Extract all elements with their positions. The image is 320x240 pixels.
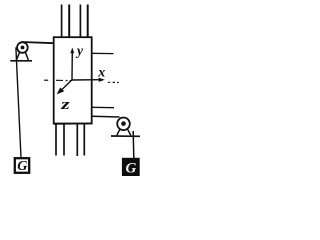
svg-text:y: y <box>75 43 84 58</box>
top pipe line 3 <box>79 5 81 38</box>
svg-text:G: G <box>126 160 137 176</box>
right stub lower <box>92 106 114 108</box>
svg-text:x: x <box>97 65 105 80</box>
y-axis <box>71 52 73 80</box>
svg-text:G: G <box>17 159 27 174</box>
right pulley base bracket <box>111 135 140 137</box>
svg-text:z: z <box>60 96 70 113</box>
right weight G box <box>122 158 139 175</box>
rope from left pulley to vessel <box>22 42 55 43</box>
x-axis <box>72 79 100 81</box>
bottom pipe line 1 <box>55 124 57 156</box>
left pulley hub <box>21 46 25 50</box>
z-axis <box>61 80 72 91</box>
vessel bottom edge reinforcement <box>54 122 92 125</box>
right stub upper <box>92 52 114 54</box>
left weight G box <box>15 158 29 173</box>
top pipe line 4 <box>87 5 89 38</box>
right pulley hub <box>121 121 126 126</box>
left pulley stand leg b <box>25 52 28 60</box>
vessel box <box>54 37 92 123</box>
left pulley base bracket <box>10 60 32 62</box>
rope from vessel to right pulley <box>92 115 120 118</box>
rope from left pulley down to weight <box>16 47 21 157</box>
right pulley wheel P2 <box>117 118 130 131</box>
rope from right pulley down to weight <box>132 131 135 158</box>
bottom pipe line 4 <box>83 124 85 156</box>
right pulley stand leg a <box>117 129 120 135</box>
bottom pipe line 2 <box>63 124 65 156</box>
bottom pipe line 3 <box>76 124 78 157</box>
left pulley stand leg a <box>16 52 19 60</box>
top pipe line 2 <box>68 5 70 38</box>
dash-dot centerline <box>44 80 119 82</box>
right pulley stand leg b <box>128 129 131 135</box>
left pulley wheel P1 <box>17 42 28 53</box>
top pipe line 1 <box>61 5 63 38</box>
